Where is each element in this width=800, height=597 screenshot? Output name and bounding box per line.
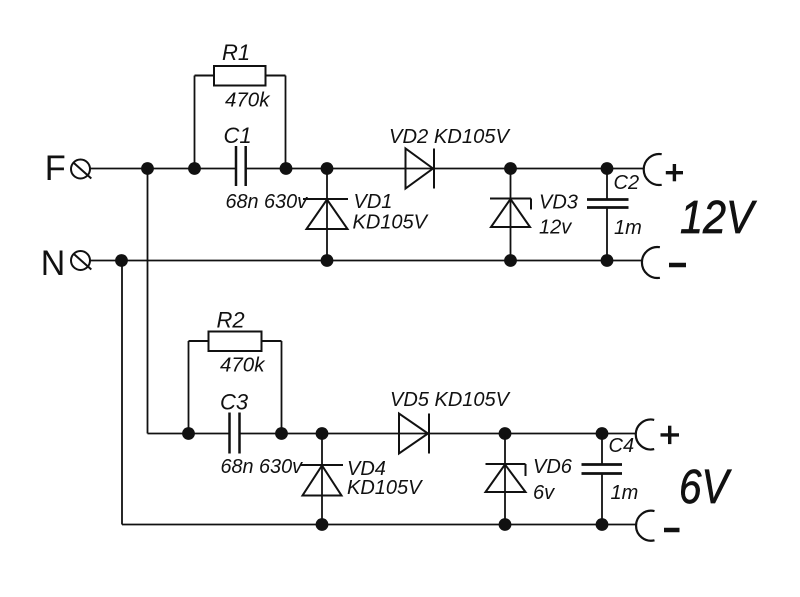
junction VD6 bottom bbox=[499, 518, 512, 531]
svg-text:68n 630v: 68n 630v bbox=[226, 190, 309, 213]
output terminal 12V minus bbox=[642, 247, 660, 278]
junction C2 top bbox=[601, 162, 614, 175]
junction VD6 top bbox=[499, 427, 512, 440]
junction R1 left on top rail bbox=[188, 162, 201, 175]
output terminal 12V plus bbox=[644, 154, 662, 185]
wire N rail bbox=[90, 260, 642, 262]
wire top rail from F to C1 left plate bbox=[90, 168, 236, 170]
zener diode VD6 bbox=[486, 464, 526, 492]
junction VD3 bottom bbox=[504, 254, 517, 267]
svg-text:R1: R1 bbox=[222, 40, 250, 65]
output terminal 6V plus bbox=[636, 420, 654, 450]
junction VD4 bottom bbox=[316, 518, 329, 531]
svg-text:12v: 12v bbox=[539, 217, 572, 239]
junction VD3 top bbox=[504, 162, 517, 175]
junction on N rail bbox=[115, 254, 128, 267]
svg-text:N: N bbox=[41, 244, 66, 283]
capacitor C4 bbox=[582, 465, 623, 474]
svg-text:VD5 KD105V: VD5 KD105V bbox=[390, 389, 511, 411]
svg-text:VD6: VD6 bbox=[533, 456, 573, 478]
wire 6V input rail from F drop to C3 left plate bbox=[148, 433, 230, 435]
capacitor C3 bbox=[230, 413, 240, 454]
junction C4 bottom bbox=[596, 518, 609, 531]
capacitor C1 bbox=[236, 146, 246, 186]
diode VD2 bbox=[406, 149, 435, 189]
wire C4 top lead bbox=[601, 434, 603, 464]
svg-text:VD3: VD3 bbox=[539, 192, 578, 214]
wire N drop down to 6V bottom rail bbox=[121, 261, 123, 525]
input terminal N bbox=[71, 251, 91, 270]
svg-text:C1: C1 bbox=[224, 123, 252, 148]
svg-text:470k: 470k bbox=[225, 89, 271, 112]
diode VD1 bbox=[303, 199, 348, 229]
svg-text:VD1: VD1 bbox=[354, 191, 393, 213]
svg-text:470k: 470k bbox=[220, 354, 266, 377]
junction C2 bottom bbox=[601, 254, 614, 267]
junction R1 right on top rail bbox=[280, 162, 293, 175]
wire R1 right lead down bbox=[285, 76, 287, 169]
svg-text:6v: 6v bbox=[533, 482, 555, 504]
svg-text:C3: C3 bbox=[220, 390, 249, 415]
output terminal 6V minus bbox=[636, 511, 654, 541]
wire C2 top lead bbox=[606, 169, 608, 199]
svg-text:R2: R2 bbox=[217, 308, 245, 333]
minus sign 6V bbox=[664, 528, 680, 533]
svg-text:C4: C4 bbox=[609, 435, 635, 457]
minus sign 12V bbox=[669, 263, 686, 268]
wire C4 bottom lead bbox=[601, 475, 603, 525]
wire R2 right lead down bbox=[281, 341, 283, 434]
svg-text:68n 630v: 68n 630v bbox=[221, 455, 304, 478]
plus sign 12V bbox=[666, 164, 683, 181]
diode VD5 bbox=[399, 414, 429, 454]
zener diode VD3 bbox=[490, 199, 531, 228]
wire 6V input rail from C3 right plate to + output bbox=[240, 433, 637, 435]
wire C2 bottom lead bbox=[606, 209, 608, 261]
wire 6V bottom rail bbox=[122, 524, 637, 526]
junction R2 left on 6V rail bbox=[182, 427, 195, 440]
junction VD1 bottom bbox=[321, 254, 334, 267]
wire R1 left lead down bbox=[194, 76, 196, 169]
junction R2 right on 6V rail bbox=[275, 427, 288, 440]
svg-text:1m: 1m bbox=[614, 217, 642, 239]
junction VD1 top bbox=[321, 162, 334, 175]
svg-text:KD105V: KD105V bbox=[347, 477, 423, 499]
svg-text:C2: C2 bbox=[614, 172, 640, 194]
junction VD4 top bbox=[316, 427, 329, 440]
wire top rail from C1 right plate to + output bbox=[246, 168, 645, 170]
svg-text:6V: 6V bbox=[679, 461, 732, 514]
diode VD4 bbox=[300, 465, 343, 496]
wire VD4 vertical bbox=[321, 434, 323, 525]
resistor R2 bbox=[189, 332, 282, 352]
plus sign 6V bbox=[661, 426, 680, 444]
svg-text:12V: 12V bbox=[680, 191, 757, 243]
wire VD1 vertical bbox=[326, 169, 328, 261]
wire R2 left lead down bbox=[188, 341, 190, 434]
wire VD3 vertical bbox=[510, 169, 512, 261]
svg-text:KD105V: KD105V bbox=[353, 212, 429, 234]
resistor R1 bbox=[195, 66, 286, 86]
junction C4 top bbox=[596, 427, 609, 440]
capacitor C2 bbox=[587, 200, 629, 208]
svg-text:1m: 1m bbox=[611, 482, 639, 504]
svg-text:F: F bbox=[45, 148, 66, 188]
input terminal F bbox=[71, 160, 91, 179]
wire F drop down to 6V input rail bbox=[147, 169, 149, 434]
junction on top rail at F drop bbox=[141, 162, 154, 175]
svg-text:VD2 KD105V: VD2 KD105V bbox=[389, 126, 511, 148]
wire VD6 vertical bbox=[504, 434, 506, 525]
